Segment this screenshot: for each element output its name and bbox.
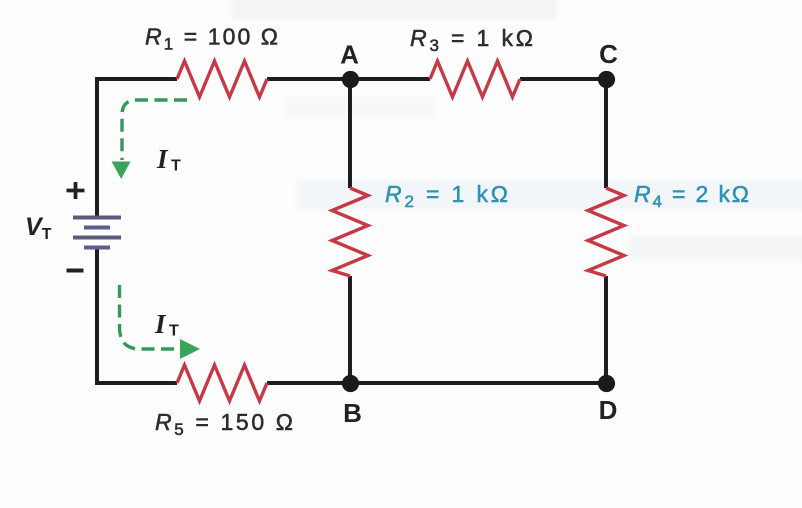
node B — [342, 375, 359, 392]
battery V_T plate short upper — [84, 226, 110, 230]
current arrowhead bottom — [180, 339, 200, 359]
battery plus sign — [67, 189, 85, 193]
svg-text:T: T — [169, 323, 179, 340]
svg-text:A: A — [340, 40, 359, 70]
svg-text:D: D — [599, 395, 618, 425]
wire R2 down to node B — [348, 276, 352, 383]
battery V_T plate short lower — [84, 246, 110, 250]
node A — [342, 71, 359, 88]
wire left vertical lower (battery - lead) — [95, 247, 99, 385]
node C — [598, 71, 615, 88]
resistor R2 — [332, 188, 368, 276]
svg-text:T: T — [171, 158, 181, 175]
wire node A down to R2 — [348, 79, 352, 188]
node D — [598, 375, 615, 392]
svg-text:I: I — [154, 309, 167, 339]
battery minus sign — [67, 269, 84, 273]
wire bottom-left horizontal (battery- to R5) — [95, 381, 177, 385]
wire R3 to node C — [520, 77, 606, 81]
current arrow I_T bottom (dashed) — [120, 285, 181, 349]
wire node B to node D — [350, 381, 606, 385]
resistor R1 — [177, 61, 267, 97]
wire R4 down to node D — [604, 276, 608, 383]
wire top-left horizontal (battery+ to R1) — [95, 77, 177, 81]
wire R5 to node B — [267, 381, 350, 385]
battery V_T plate long bottom — [73, 236, 121, 240]
wire left vertical upper (battery + lead) — [95, 77, 99, 217]
wire R1 to node A — [267, 77, 350, 81]
resistor R5 — [177, 365, 267, 401]
svg-text:B: B — [343, 398, 362, 428]
battery V_T plate long top — [73, 216, 121, 220]
wire node C down to R4 — [604, 79, 608, 188]
wire node A to R3 — [350, 77, 430, 81]
current arrow I_T top (dashed) — [122, 100, 187, 160]
svg-text:C: C — [599, 39, 618, 69]
resistor R3 — [430, 61, 520, 97]
resistor R4 — [588, 188, 624, 276]
current arrowhead top — [112, 162, 131, 180]
svg-text:I: I — [156, 144, 169, 174]
